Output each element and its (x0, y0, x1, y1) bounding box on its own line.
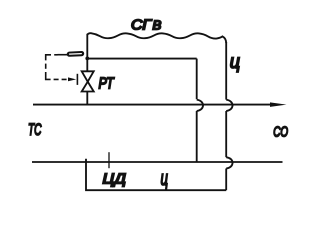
crossing bump of vertical C over supply pipe (197, 100, 203, 111)
arrowhead on supply pipe (270, 102, 287, 107)
dashed impulse line: top corner (46, 55, 51, 61)
dashed impulse line: bottom dashes (54, 78, 67, 80)
sensor lead line (58, 54, 68, 56)
valve RT (bowtie, hollow triangles) (82, 71, 94, 81)
wire: vertical C between pipes, tee on return pipe (196, 111, 198, 162)
wire: vertical A riser to coil (upper part) (86, 34, 88, 72)
valve stem tick (76, 74, 78, 85)
tick mark on return pipe (108, 152, 110, 168)
svg-text:СГ: СГ (131, 18, 152, 34)
wire: vertical A below valve to supply pipe (86, 92, 88, 105)
dashed impulse line: top dash (54, 54, 57, 56)
dashed impulse line: vertical dash (45, 64, 47, 69)
arrowhead of impulse line (68, 77, 76, 81)
wire: vertical B (coil outlet, Ц riser) down to upper pipe (225, 42, 227, 100)
svg-text:В: В (153, 19, 162, 33)
svg-text:ЦД: ЦД (103, 171, 127, 188)
svg-text:ТС: ТС (28, 121, 42, 139)
wire: supply pipe TC (upper horizontal) (33, 104, 272, 106)
crossing bump of vertical B over supply pipe (226, 100, 232, 111)
junction dot at sensor node (85, 57, 89, 61)
svg-text:ц: ц (230, 51, 240, 73)
wire: vertical B between pipes (225, 111, 227, 157)
svg-text:ц: ц (161, 168, 169, 190)
wire: horizontal line from sensor node to vertical C (87, 58, 196, 60)
wire: bypass loop ЦД (below return pipe) (86, 159, 226, 190)
wire: return pipe (lower horizontal) (32, 161, 283, 163)
crossing bump of vertical B over return pipe (226, 157, 232, 168)
svg-text:РТ: РТ (99, 75, 115, 92)
dashed impulse line: bottom corner (46, 72, 51, 79)
temperature sensor bulb (69, 51, 81, 57)
wire: vertical B to bypass loop bottom (225, 169, 227, 191)
svg-text:СО: СО (273, 124, 288, 141)
coil СГВ (heat exchanger wavy line) (87, 33, 226, 43)
wire: vertical C down to upper pipe (196, 59, 198, 100)
